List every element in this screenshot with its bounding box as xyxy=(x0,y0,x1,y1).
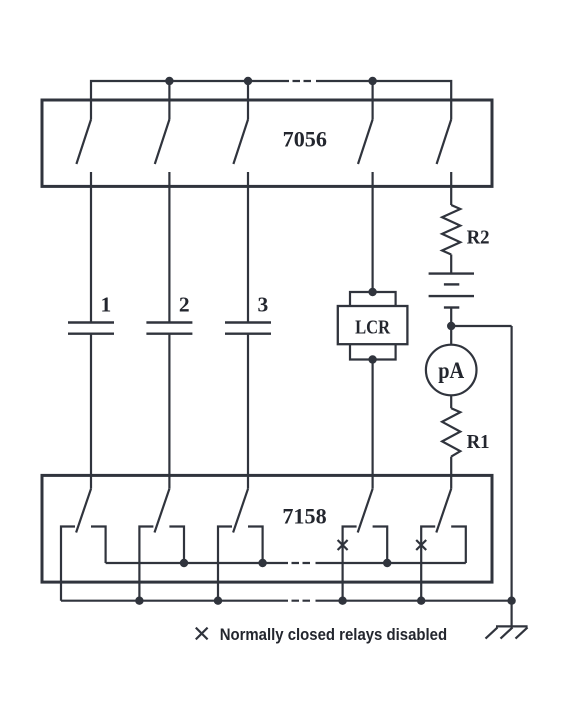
node rail K2 xyxy=(180,559,188,567)
svg-text:LCR: LCR xyxy=(355,317,390,339)
wire LCR to K4 xyxy=(372,360,374,489)
outer bus right part xyxy=(316,600,512,602)
relay card box 7056 xyxy=(42,100,492,186)
relay K4 NO contact bracket right xyxy=(373,527,388,564)
switch S3 input drop xyxy=(247,81,249,120)
wire S1 output to C1 xyxy=(90,172,92,323)
relay K4 NC contact bracket left xyxy=(343,527,357,601)
junction node on top bus col2 xyxy=(165,77,173,85)
wire C2 to K2 xyxy=(168,334,170,489)
node rail K3 xyxy=(258,559,266,567)
relay K4 arm (7158) xyxy=(358,489,373,533)
relay K5 disabled mark x xyxy=(416,540,426,550)
relay K4 disabled mark x xyxy=(338,540,348,550)
switch S5 arm (7056) xyxy=(437,120,452,165)
switch S2 input drop xyxy=(168,81,170,120)
relay K5 NO contact bracket right xyxy=(451,527,466,564)
wire S5 output to R2 xyxy=(450,172,452,205)
svg-text:2: 2 xyxy=(179,293,190,317)
junction node on top bus col4 xyxy=(368,77,376,85)
relay K3 NC contact bracket left xyxy=(218,527,232,601)
resistor R1 xyxy=(442,408,460,456)
wire bus to ground xyxy=(511,601,513,627)
node bus K2 xyxy=(135,597,143,605)
wire S2 output to C2 xyxy=(168,172,170,323)
relay K2 NO contact bracket right xyxy=(169,527,184,564)
svg-text:Normally closed relays disable: Normally closed relays disabled xyxy=(220,625,447,644)
relay K5 NC contact bracket left xyxy=(421,527,435,601)
wire R1 to K5 xyxy=(450,457,452,489)
relay K1 arm (7158) xyxy=(76,489,91,533)
svg-text:3: 3 xyxy=(258,293,269,317)
node bus K4 xyxy=(338,597,346,605)
top bus wire right part xyxy=(316,81,451,120)
switch S4 arm (7056) xyxy=(358,120,373,165)
capacitor C1 xyxy=(68,323,114,334)
switch S2 arm (7056) xyxy=(155,120,170,165)
top bus dashes xyxy=(293,80,312,82)
LCR meter box xyxy=(338,306,408,344)
node bus ground branch xyxy=(507,597,515,605)
switch S3 arm (7056) xyxy=(233,120,248,165)
LCR top strap xyxy=(350,292,396,306)
wire R2 to battery xyxy=(450,255,452,273)
svg-text:pA: pA xyxy=(438,358,464,384)
node battery output xyxy=(447,322,455,330)
ammeter pA xyxy=(426,345,477,396)
relay K2 NC contact bracket left xyxy=(139,527,153,601)
switch S1 arm (7056) xyxy=(76,120,91,165)
node rail K4 xyxy=(383,559,391,567)
wire battery to node xyxy=(450,308,452,345)
switch S4 input drop xyxy=(372,81,374,120)
battery cell plate short xyxy=(444,283,459,285)
LCR bottom strap xyxy=(350,344,396,359)
inner rail right part xyxy=(316,562,466,564)
battery cell plate short bottom xyxy=(444,306,459,308)
ground symbol xyxy=(486,626,528,638)
svg-text:1: 1 xyxy=(101,293,112,317)
relay K3 NO contact bracket right xyxy=(248,527,263,564)
top bus wire xyxy=(91,81,289,120)
svg-text:R2: R2 xyxy=(467,226,490,248)
battery cell plate long top xyxy=(429,272,474,274)
inner rail dashes xyxy=(292,562,311,564)
resistor R2 xyxy=(442,205,460,255)
relay card box 7158 xyxy=(42,475,492,582)
svg-text:7158: 7158 xyxy=(282,504,326,528)
relay K1 NC contact bracket left xyxy=(61,527,75,601)
wire C1 to K1 xyxy=(90,334,92,489)
wire C3 to K3 xyxy=(247,334,249,489)
relay K2 arm (7158) xyxy=(155,489,170,533)
caption x mark xyxy=(196,628,208,640)
node LCR bottom xyxy=(368,355,376,363)
outer bus dashes xyxy=(292,600,311,602)
inner output rail xyxy=(106,562,288,564)
wire S3 output to C3 xyxy=(247,172,249,323)
junction node on top bus col3 xyxy=(244,77,252,85)
wire pA to R1 xyxy=(450,395,452,408)
node bus K5 xyxy=(417,597,425,605)
wire S4 output to LCR xyxy=(372,172,374,292)
relay K3 arm (7158) xyxy=(233,489,248,533)
node LCR top xyxy=(368,288,376,296)
outer ground bus xyxy=(61,600,288,602)
node bus K3 xyxy=(214,597,222,605)
capacitor C2 xyxy=(146,323,192,334)
svg-text:R1: R1 xyxy=(467,431,490,453)
svg-text:7056: 7056 xyxy=(283,127,327,151)
capacitor C3 xyxy=(225,323,271,334)
battery cell plate long bottom xyxy=(429,295,474,297)
relay K5 arm (7158) xyxy=(436,489,451,533)
relay K1 NO contact bracket right xyxy=(91,527,106,564)
wire right branch down xyxy=(511,326,513,601)
wire node to right branch xyxy=(451,325,511,327)
